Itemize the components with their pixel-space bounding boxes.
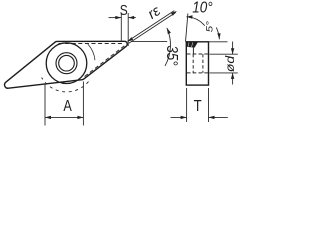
- inscribed circle of insert: [46, 43, 87, 84]
- hole countersink circle: [56, 53, 77, 74]
- dim od vertical line upper tail: [232, 42, 234, 55]
- svg-text:A: A: [63, 98, 72, 116]
- 5-deg dimension arc: [216, 27, 219, 39]
- leader arrow outer end: [171, 11, 177, 16]
- svg-text:35°: 35°: [163, 45, 180, 66]
- hatched chamfer section at top-left corner: [187, 42, 198, 47]
- hole bore circle: [59, 55, 75, 71]
- hidden hole lower line in side view: [187, 72, 208, 74]
- 10-deg dimension arc: [186, 17, 204, 26]
- 35-deg dimension arc: [165, 28, 170, 66]
- dimension S extension line left: [120, 13, 122, 42]
- svg-text:5°: 5°: [206, 21, 216, 32]
- svg-text:ød: ød: [223, 55, 237, 72]
- 35-deg horizontal reference leg (top edge extension): [131, 40, 167, 42]
- dim od vertical line lower tail: [232, 73, 234, 85]
- dimension T extension line right: [208, 88, 210, 122]
- dimension A extension line right: [82, 82, 84, 126]
- arrow at top of 35-deg arc: [167, 28, 171, 34]
- side view body rectangle: [186, 42, 208, 85]
- dim od upper extension line: [210, 53, 238, 55]
- corner radius leader second line: [129, 12, 176, 43]
- hidden counterbore left line: [192, 54, 194, 73]
- dimension A extension line left: [44, 84, 46, 126]
- dimension A line with arrows: [45, 116, 83, 118]
- dimension S extension line right: [127, 13, 129, 46]
- dim od lower extension line: [210, 72, 238, 74]
- leader arrow at nose: [127, 37, 133, 42]
- side face extension line (5-deg tilt): [186, 13, 188, 41]
- svg-text:10°: 10°: [192, 0, 213, 17]
- top edge extension to the right: [209, 41, 228, 43]
- corner radius leader line (edge extension): [128, 11, 175, 42]
- insert plan-view outline (35-deg rhombic insert body): [5, 41, 128, 88]
- dimension T line right tail: [209, 116, 228, 118]
- hidden hole upper line in side view: [187, 53, 208, 55]
- hidden chip-breaker circle arc (lower left, dashed): [42, 78, 89, 92]
- countersink edge under chamfer: [192, 43, 194, 55]
- chip-breaker circle arc (upper right, solid): [88, 44, 95, 60]
- dimension S line with inward arrows: [109, 17, 122, 19]
- hidden counterbore right line: [202, 54, 204, 73]
- dimension T line left tail: [171, 116, 187, 118]
- hidden land line inside right edge: [85, 44, 127, 76]
- hidden land line inside top edge: [59, 43, 123, 45]
- svg-text:S: S: [120, 2, 128, 19]
- dimension T extension line left: [186, 88, 188, 122]
- svg-text:T: T: [194, 98, 202, 115]
